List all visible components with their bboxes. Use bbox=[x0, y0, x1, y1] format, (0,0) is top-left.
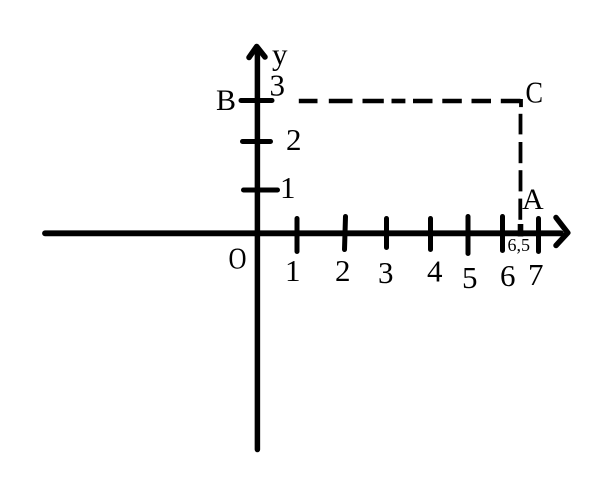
x-axis arrowhead bbox=[556, 218, 568, 246]
tick x=5 bbox=[466, 217, 471, 254]
svg-text:6: 6 bbox=[500, 258, 516, 293]
tick y=2 bbox=[243, 139, 271, 144]
svg-text:2: 2 bbox=[286, 122, 302, 157]
y-axis arrowhead bbox=[249, 47, 265, 58]
dash 4 bbox=[392, 99, 406, 104]
tick x=3 bbox=[384, 219, 389, 248]
svg-text:B: B bbox=[216, 84, 236, 117]
dash 2 bbox=[519, 142, 523, 163]
small tick at x=6.5 (point A) bbox=[518, 224, 524, 237]
svg-text:3: 3 bbox=[270, 68, 286, 103]
tick y=1 bbox=[244, 188, 278, 193]
dash 1 bbox=[299, 99, 318, 104]
x-axis bbox=[45, 230, 561, 236]
svg-text:1: 1 bbox=[280, 170, 296, 205]
dash 7 bbox=[472, 99, 492, 104]
dash 6 bbox=[442, 99, 462, 104]
dashed line C to A (vertical dashes) bbox=[518, 99, 523, 220]
corner stub below C bbox=[519, 99, 523, 107]
svg-text:6,5: 6,5 bbox=[508, 235, 531, 255]
tick x=7 bbox=[536, 219, 541, 252]
dash 4 bbox=[518, 199, 522, 220]
svg-text:C: C bbox=[526, 75, 544, 110]
y-axis bbox=[255, 50, 261, 450]
svg-text:y: y bbox=[272, 37, 288, 72]
svg-text:3: 3 bbox=[378, 255, 394, 290]
tick x=4 bbox=[428, 219, 433, 250]
svg-text:2: 2 bbox=[335, 253, 351, 288]
svg-text:5: 5 bbox=[462, 260, 478, 295]
svg-text:7: 7 bbox=[528, 257, 544, 292]
svg-text:O: O bbox=[229, 241, 247, 276]
dash 1 bbox=[519, 114, 523, 135]
dash 5 bbox=[413, 99, 433, 104]
dash 8 into corner C bbox=[501, 99, 521, 104]
dashed line B to C (horizontal dashes) bbox=[299, 99, 521, 104]
svg-text:1: 1 bbox=[285, 253, 301, 288]
svg-text:4: 4 bbox=[427, 254, 443, 289]
tick x=1 bbox=[295, 219, 300, 252]
dash 3 bbox=[363, 99, 384, 104]
tick x=6 bbox=[500, 217, 505, 251]
svg-text:A: A bbox=[522, 183, 544, 216]
tick x=2 bbox=[345, 217, 346, 250]
dash 3 bbox=[519, 170, 523, 191]
dash 2 bbox=[329, 99, 353, 104]
tick y=3 bbox=[241, 98, 272, 103]
